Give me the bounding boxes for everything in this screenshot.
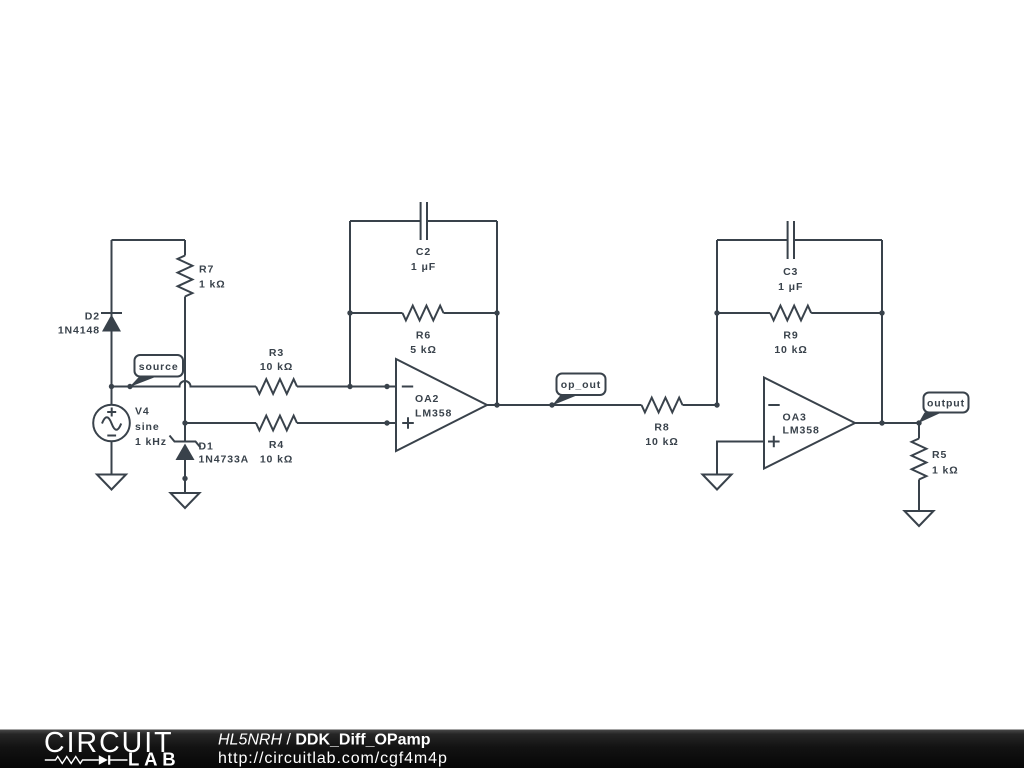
svg-text:output: output [927, 398, 965, 410]
svg-text:D2: D2 [85, 310, 100, 322]
svg-text:C3: C3 [783, 266, 798, 278]
svg-text:V4: V4 [135, 406, 150, 418]
svg-text:source: source [139, 361, 179, 373]
svg-text:C2: C2 [416, 246, 431, 258]
svg-text:R5: R5 [932, 449, 947, 461]
svg-text:10 kΩ: 10 kΩ [260, 361, 293, 373]
svg-text:10 kΩ: 10 kΩ [260, 454, 293, 466]
svg-text:R6: R6 [416, 329, 431, 341]
svg-text:R8: R8 [654, 421, 669, 433]
svg-text:sine: sine [135, 421, 160, 433]
svg-text:10 kΩ: 10 kΩ [774, 344, 807, 356]
svg-text:10 kΩ: 10 kΩ [645, 436, 678, 448]
svg-text:1 kHz: 1 kHz [135, 436, 167, 448]
svg-text:1 kΩ: 1 kΩ [199, 279, 226, 291]
svg-text:D1: D1 [199, 441, 214, 453]
svg-text:OA3: OA3 [783, 411, 807, 423]
svg-text:LM358: LM358 [415, 407, 452, 419]
svg-text:OA2: OA2 [415, 393, 439, 405]
svg-text:http://circuitlab.com/cgf4m4p: http://circuitlab.com/cgf4m4p [218, 750, 448, 767]
svg-text:LAB: LAB [128, 749, 180, 768]
svg-text:1 kΩ: 1 kΩ [932, 464, 959, 476]
svg-text:R3: R3 [269, 347, 284, 359]
svg-text:R9: R9 [783, 329, 798, 341]
svg-text:op_out: op_out [561, 379, 601, 391]
svg-text:1 μF: 1 μF [778, 281, 803, 293]
svg-text:HL5NRH / DDK_Diff_OPamp: HL5NRH / DDK_Diff_OPamp [218, 732, 431, 749]
svg-text:1N4733A: 1N4733A [199, 453, 250, 465]
svg-text:R4: R4 [269, 439, 284, 451]
svg-text:5 kΩ: 5 kΩ [410, 344, 437, 356]
svg-text:1 μF: 1 μF [411, 261, 436, 273]
svg-text:LM358: LM358 [783, 424, 820, 436]
svg-text:1N4148: 1N4148 [58, 324, 100, 336]
svg-text:R7: R7 [199, 264, 214, 276]
